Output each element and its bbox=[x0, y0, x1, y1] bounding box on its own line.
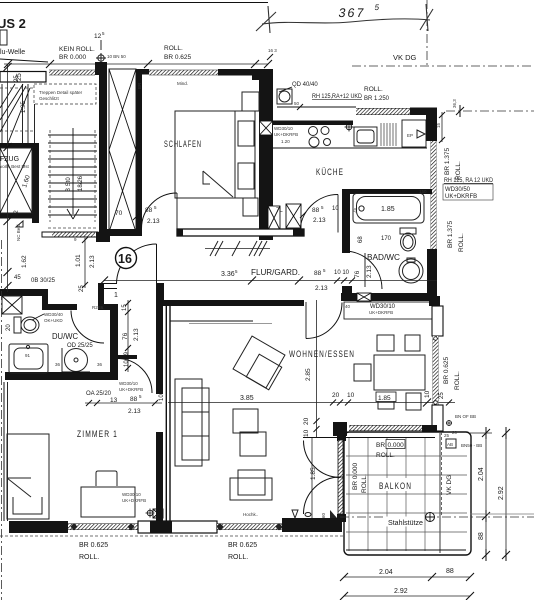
svg-text:3.36: 3.36 bbox=[221, 271, 235, 278]
svg-text:OD 25/25: OD 25/25 bbox=[67, 343, 93, 349]
svg-text:150: 150 bbox=[419, 189, 427, 194]
svg-text:10: 10 bbox=[332, 206, 339, 212]
svg-text:WD30/40: WD30/40 bbox=[44, 312, 63, 317]
svg-text:0.000: 0.000 bbox=[388, 442, 405, 449]
svg-text:20: 20 bbox=[303, 417, 310, 425]
svg-text:ROLL.: ROLL. bbox=[361, 474, 368, 493]
svg-text:BR 0.625: BR 0.625 bbox=[164, 54, 191, 61]
svg-text:EP: EP bbox=[407, 133, 413, 138]
svg-text:UK+DKRFB: UK+DKRFB bbox=[274, 132, 298, 137]
svg-text:36: 36 bbox=[55, 362, 61, 367]
svg-text:2.85: 2.85 bbox=[305, 368, 312, 381]
svg-text:25: 25 bbox=[14, 75, 20, 82]
svg-text:UK+DKRFB: UK+DKRFB bbox=[122, 498, 146, 503]
svg-text:25: 25 bbox=[444, 433, 450, 438]
svg-text:50: 50 bbox=[294, 101, 300, 106]
svg-text:RH 125, RA 12 UKD: RH 125, RA 12 UKD bbox=[444, 178, 494, 184]
svg-text:B St0: B St0 bbox=[66, 177, 72, 192]
svg-text:ROLL.: ROLL. bbox=[364, 86, 383, 93]
svg-text:88: 88 bbox=[130, 396, 138, 403]
svg-text:BR 1.250: BR 1.250 bbox=[364, 95, 389, 102]
svg-text:BR 0.625: BR 0.625 bbox=[79, 542, 108, 549]
svg-text:UK+DKRFB: UK+DKRFB bbox=[369, 310, 393, 315]
svg-text:Geschlitzt: Geschlitzt bbox=[39, 96, 60, 101]
svg-text:2.04: 2.04 bbox=[379, 569, 393, 576]
svg-text:BR 0.000: BR 0.000 bbox=[352, 463, 359, 490]
svg-text:25: 25 bbox=[439, 392, 445, 399]
svg-text:ROLL.: ROLL. bbox=[79, 554, 99, 561]
svg-text:ROLL.: ROLL. bbox=[454, 371, 461, 390]
svg-text:Mind.: Mind. bbox=[177, 81, 188, 86]
svg-text:UK+DKRFB: UK+DKRFB bbox=[119, 387, 143, 392]
svg-text:40: 40 bbox=[345, 304, 351, 309]
svg-text:BN OF BB: BN OF BB bbox=[455, 414, 476, 419]
svg-text:1.01: 1.01 bbox=[75, 254, 82, 267]
svg-text:KÜCHE: KÜCHE bbox=[316, 167, 344, 177]
svg-text:15: 15 bbox=[436, 122, 441, 128]
svg-text:2.13: 2.13 bbox=[366, 265, 373, 278]
svg-text:QD 40/40: QD 40/40 bbox=[292, 82, 318, 88]
svg-text:US 2: US 2 bbox=[0, 16, 26, 31]
svg-text:OA 25/20: OA 25/20 bbox=[86, 391, 112, 397]
svg-text:1.85: 1.85 bbox=[378, 395, 391, 402]
svg-text:BN50 - BB: BN50 - BB bbox=[461, 443, 482, 448]
svg-text:60: 60 bbox=[321, 512, 326, 518]
svg-text:7L: 7L bbox=[276, 208, 283, 214]
svg-text:3.85: 3.85 bbox=[240, 395, 254, 402]
svg-text:Hochk..: Hochk.. bbox=[243, 512, 258, 517]
svg-text:OK+UKD: OK+UKD bbox=[44, 318, 63, 323]
svg-text:1.95: 1.95 bbox=[21, 101, 27, 113]
svg-text:SCHLAFEN: SCHLAFEN bbox=[164, 139, 202, 149]
svg-text:VK DG: VK DG bbox=[446, 475, 453, 495]
svg-text:13: 13 bbox=[110, 397, 118, 404]
svg-text:10: 10 bbox=[424, 390, 431, 398]
svg-text:20: 20 bbox=[6, 324, 12, 331]
svg-text:88: 88 bbox=[145, 207, 153, 214]
svg-text:R2B6.: R2B6. bbox=[92, 305, 105, 310]
svg-text:1.85: 1.85 bbox=[310, 467, 317, 480]
svg-text:ZIMMER 1: ZIMMER 1 bbox=[77, 429, 118, 439]
svg-text:70: 70 bbox=[115, 210, 123, 217]
svg-text:20: 20 bbox=[332, 392, 340, 399]
svg-text:12: 12 bbox=[94, 33, 102, 40]
svg-text:10 BN 50: 10 BN 50 bbox=[107, 54, 126, 59]
svg-text:88: 88 bbox=[446, 568, 454, 575]
svg-text:170: 170 bbox=[381, 236, 392, 242]
svg-text:RH 125,RA+12 UKD: RH 125,RA+12 UKD bbox=[312, 94, 363, 100]
svg-text:36: 36 bbox=[97, 362, 103, 367]
svg-text:WD30/10: WD30/10 bbox=[119, 381, 138, 386]
svg-text:vorb. Best Mst: vorb. Best Mst bbox=[0, 164, 30, 169]
svg-text:36,3: 36,3 bbox=[452, 99, 457, 108]
svg-text:76: 76 bbox=[354, 270, 361, 278]
svg-text:10: 10 bbox=[347, 392, 355, 399]
svg-text:WD30/50: WD30/50 bbox=[445, 187, 471, 193]
svg-text:2.13: 2.13 bbox=[128, 408, 141, 415]
svg-text:KEIN ROLL.: KEIN ROLL. bbox=[59, 46, 95, 53]
svg-text:WD30/10: WD30/10 bbox=[274, 126, 293, 131]
svg-text:88: 88 bbox=[312, 207, 320, 214]
svg-text:10: 10 bbox=[303, 429, 310, 437]
svg-text:Stahlstütze: Stahlstütze bbox=[388, 520, 423, 527]
svg-text:75: 75 bbox=[352, 207, 357, 213]
svg-text:2.04: 2.04 bbox=[478, 467, 485, 481]
svg-text:FZUG: FZUG bbox=[0, 156, 19, 163]
svg-text:BR: BR bbox=[376, 442, 385, 449]
svg-text:2.13: 2.13 bbox=[89, 255, 96, 268]
svg-text:2.92: 2.92 bbox=[498, 486, 505, 500]
svg-text:BR 1.375: BR 1.375 bbox=[444, 148, 451, 175]
svg-text:367: 367 bbox=[337, 6, 366, 20]
svg-text:ROLL.: ROLL. bbox=[228, 554, 248, 561]
svg-text:91: 91 bbox=[25, 353, 31, 358]
svg-text:BR 1.375: BR 1.375 bbox=[447, 221, 454, 248]
svg-text:BR 0.625: BR 0.625 bbox=[443, 357, 450, 384]
svg-text:1.20: 1.20 bbox=[281, 139, 290, 144]
svg-text:76: 76 bbox=[122, 332, 129, 340]
svg-text:2.92: 2.92 bbox=[394, 588, 408, 595]
svg-text:32: 32 bbox=[14, 210, 20, 217]
svg-text:AB: AB bbox=[447, 442, 453, 447]
svg-text:16: 16 bbox=[118, 252, 132, 266]
svg-text:2.13: 2.13 bbox=[313, 217, 326, 224]
svg-text:20: 20 bbox=[452, 430, 458, 435]
svg-text:Treppen Detail später: Treppen Detail später bbox=[39, 90, 83, 95]
svg-text:FLUR/GARD.: FLUR/GARD. bbox=[251, 268, 300, 277]
svg-text:ROLL.: ROLL. bbox=[376, 452, 395, 459]
svg-text:1.85: 1.85 bbox=[381, 206, 395, 213]
svg-text:16 3: 16 3 bbox=[268, 48, 277, 53]
svg-text:0B 30/25: 0B 30/25 bbox=[31, 278, 56, 284]
svg-text:2.13: 2.13 bbox=[133, 328, 140, 341]
svg-text:UK+DKRFB: UK+DKRFB bbox=[445, 194, 477, 200]
svg-text:ROLL.: ROLL. bbox=[458, 233, 465, 252]
svg-text:BALKON: BALKON bbox=[379, 481, 412, 491]
svg-text:BR: BR bbox=[137, 82, 142, 89]
svg-text:1: 1 bbox=[114, 292, 118, 299]
svg-text:2.13: 2.13 bbox=[315, 285, 328, 292]
svg-text:lu-Welle: lu-Welle bbox=[0, 49, 25, 56]
svg-text:18/26: 18/26 bbox=[78, 175, 84, 191]
svg-text:10: 10 bbox=[159, 394, 165, 401]
svg-text:10 10: 10 10 bbox=[334, 270, 350, 276]
svg-text:68: 68 bbox=[358, 236, 364, 243]
svg-text:88: 88 bbox=[478, 532, 485, 540]
svg-text:WOHNEN/ESSEN: WOHNEN/ESSEN bbox=[289, 349, 355, 359]
svg-text:45: 45 bbox=[14, 275, 21, 281]
svg-text:VK DG: VK DG bbox=[393, 53, 417, 62]
svg-text:BR 0.000: BR 0.000 bbox=[59, 54, 86, 61]
svg-text:DU/WC: DU/WC bbox=[52, 332, 78, 341]
svg-text:88: 88 bbox=[314, 270, 322, 277]
svg-text:1.62: 1.62 bbox=[21, 255, 28, 268]
svg-text:BAD/WC: BAD/WC bbox=[367, 253, 400, 262]
svg-text:BR 0.625: BR 0.625 bbox=[228, 542, 257, 549]
svg-text:ROLL.: ROLL. bbox=[164, 45, 183, 52]
svg-text:WD30/10: WD30/10 bbox=[122, 492, 141, 497]
svg-text:15: 15 bbox=[122, 304, 128, 311]
svg-text:2.13: 2.13 bbox=[147, 218, 160, 225]
